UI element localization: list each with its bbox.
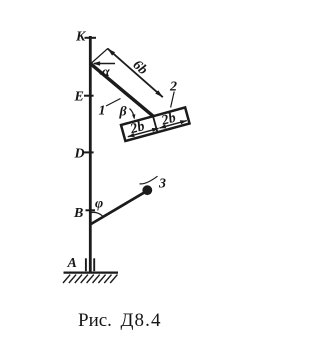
ground line xyxy=(64,271,119,273)
dimension line 6b xyxy=(108,49,163,98)
ball (point mass) xyxy=(142,185,152,195)
extension line for 6b dimension xyxy=(92,48,109,63)
tick D xyxy=(84,151,94,153)
tick E xyxy=(84,95,94,97)
leader for ball 3 label xyxy=(140,176,158,184)
svg-text:A: A xyxy=(67,256,77,271)
svg-text:K: K xyxy=(75,30,87,45)
svg-text:B: B xyxy=(73,206,83,221)
angle alpha leader arrow xyxy=(96,67,101,75)
rod with ball 3 xyxy=(91,190,148,224)
angle phi arc xyxy=(90,212,104,217)
rod 1 (from shaft at J1 to plate) xyxy=(91,64,154,116)
plate 2 (rotated rectangle) xyxy=(121,107,190,141)
thrust bearing at A (right pad) xyxy=(93,258,95,271)
ground hatching xyxy=(63,275,117,283)
svg-text:E: E xyxy=(74,90,84,105)
svg-text:Рис.: Рис. xyxy=(78,310,112,331)
plate centre divider xyxy=(153,116,157,132)
thrust bearing at A (left pad) xyxy=(85,258,87,271)
svg-text:2: 2 xyxy=(169,80,177,95)
leader for plate 2 label xyxy=(171,92,175,108)
tick B xyxy=(86,209,96,211)
svg-text:φ: φ xyxy=(95,197,103,212)
leader for rod 1 label xyxy=(106,99,121,107)
svg-text:β: β xyxy=(119,105,128,120)
alpha reference ray (horizontal arrow at J1) xyxy=(94,63,115,65)
dimension 2b (right half of plate) xyxy=(159,121,186,129)
svg-text:D: D xyxy=(74,147,85,162)
dimension 2b (left half of plate) xyxy=(128,128,159,136)
angle beta leader arrow xyxy=(130,109,135,119)
svg-text:1: 1 xyxy=(99,104,106,119)
svg-text:Д8.4: Д8.4 xyxy=(121,310,162,331)
tick K xyxy=(85,37,97,39)
svg-text:3: 3 xyxy=(158,177,166,192)
svg-text:α: α xyxy=(102,65,110,80)
shaft KA (body 1 axis) xyxy=(89,36,92,272)
